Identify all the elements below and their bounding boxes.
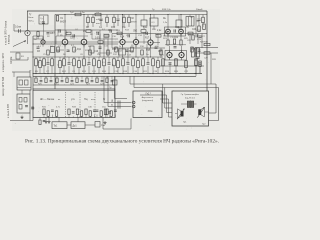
svg-text:мотор ЭПУ МЗ: мотор ЭПУ МЗ (1, 77, 5, 96)
svg-text:Рис. 1.13. Принципиальная схем: Рис. 1.13. Принципиальная схема двухкана… (25, 139, 219, 145)
svg-text:в выход: в выход (7, 34, 10, 44)
svg-text:к выв 4 БП: к выв 4 БП (6, 104, 10, 118)
svg-text:к звукосн. ЭПУ: к звукосн. ЭПУ (1, 53, 5, 72)
